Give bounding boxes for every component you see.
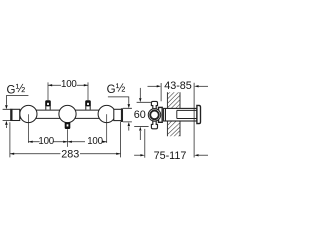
dim 60 upper arrow [139,88,141,98]
svg-text:75-117: 75-117 [154,150,187,162]
left port heavy face [11,109,13,121]
port height lower arrow right [128,127,130,131]
dim 75-117 right arrow [199,154,208,156]
svg-text:100: 100 [87,136,103,147]
port height lower arrow left [5,125,7,128]
extension line right long [193,83,195,158]
body collar line [165,108,167,121]
valve flange bottom [151,121,157,129]
dim 43-85 right arrow [199,85,208,87]
port height extension lines right [123,108,132,122]
dim 100 bottom-right line [68,141,107,143]
svg-text:43-85: 43-85 [164,80,192,92]
centerline C3 [106,114,108,143]
svg-text:½: ½ [116,83,126,95]
label G1/2 left [7,83,26,96]
stem fitting S1 [45,100,51,109]
extension line 43-85 left [160,83,162,101]
label G1/2 right [107,83,126,96]
extension line stem S2 [87,82,89,100]
extension line stem S1 [47,82,49,100]
dim 43-85 left arrow [148,85,158,87]
leader arrow right [128,104,131,108]
dim 60 lower extension [134,125,148,127]
extension line 283 left [9,122,11,157]
svg-text:100: 100 [38,136,54,147]
dim 100 top line [48,84,88,86]
centerline C2 [67,129,69,147]
right port heavy face [121,108,123,122]
leader arrow left [5,105,8,109]
dim 283 line [10,153,121,155]
port height extension lines left [3,109,11,120]
valve flange top [151,101,157,109]
valve circle C2 [59,105,76,122]
dim 60 lower arrow [139,131,141,140]
svg-text:283: 283 [61,148,79,160]
end cap [197,105,201,123]
svg-text:G: G [107,84,116,96]
wall face lines [167,92,180,136]
valve ring [150,111,159,120]
leader line right G1/2 [108,97,129,104]
valve block nut [159,107,163,122]
stem fitting S2 [85,100,91,109]
dim 283 arrows [10,153,14,155]
extension line 283 right [120,122,122,158]
dim 75-117 left arrow [134,154,141,156]
centerline C1 [27,114,29,143]
left port rectangle [11,109,20,120]
valve circle C3 [98,105,115,122]
mounting body tube [164,108,197,121]
right port rectangle [114,109,123,120]
bottom fitting under C2 [65,122,71,129]
svg-text:½: ½ [16,83,26,95]
svg-text:60: 60 [134,109,146,121]
dim 100 bottom-left arrows [28,141,32,143]
valve circle C1 [20,105,37,122]
inner sleeve [177,110,197,118]
extension line 75-117 left [144,129,146,158]
valve outer circle [148,109,160,121]
leader line left G1/2 [6,96,28,105]
dim 100 bottom-left line [28,141,67,143]
dim 60 upper extension [137,101,151,103]
wall hatching [162,84,202,147]
dim 100 top arrows [48,84,52,86]
dim 100 bottom-right arrows [68,141,72,143]
svg-text:100: 100 [61,79,77,90]
svg-text:G: G [7,84,16,96]
pipe body horizontal [20,110,114,118]
